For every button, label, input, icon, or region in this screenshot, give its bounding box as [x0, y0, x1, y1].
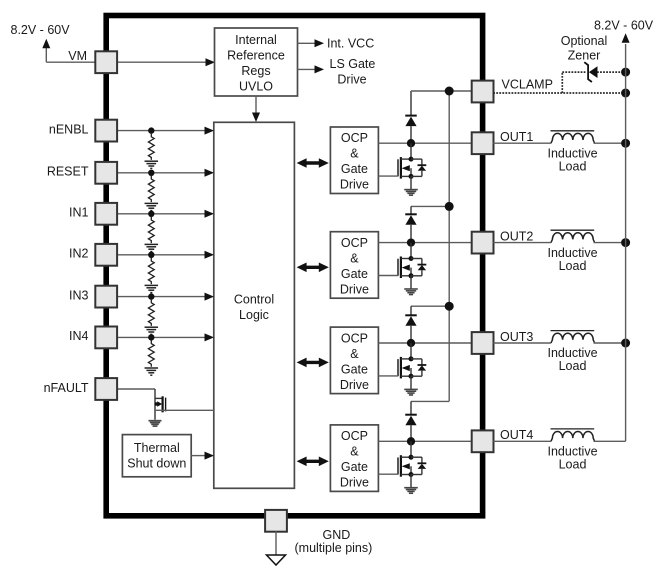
wire OCP 3 output to OUT3 pin: [378, 342, 472, 344]
label Inductive Load 2: [547, 246, 597, 273]
svg-text:OCP: OCP: [341, 131, 368, 145]
body diode of Q2: [411, 259, 426, 276]
svg-text:Drive: Drive: [340, 178, 369, 192]
wire OUT3 to load: [493, 342, 551, 344]
bidirectional arrow control logic to OCP 3: [297, 358, 329, 368]
wire OUT4 to load: [493, 440, 551, 442]
junction clamp bus 2: [445, 202, 454, 211]
svg-text:Reference: Reference: [227, 49, 285, 63]
label LS Gate Drive: [330, 57, 376, 87]
ground under nFAULT FET: [149, 421, 162, 426]
body diode of Q4: [411, 457, 426, 474]
ground symbol (open triangle): [267, 555, 286, 565]
ground under Q1: [404, 176, 418, 195]
svg-text:Regs: Regs: [241, 64, 270, 78]
pin IN4: [95, 327, 117, 349]
svg-text:VM: VM: [68, 49, 87, 63]
low-side MOSFET Q3: [398, 343, 414, 379]
junction dot on nENBL line: [148, 127, 154, 133]
svg-text:Zener: Zener: [568, 48, 601, 62]
svg-text:Inductive: Inductive: [547, 346, 597, 360]
svg-text:Int. VCC: Int. VCC: [327, 37, 374, 51]
low-side MOSFET Q1: [398, 143, 414, 179]
bidirectional arrow control logic to OCP 4: [297, 457, 329, 467]
label nENBL: [49, 122, 89, 136]
wire OCP 1 output to OUT1 pin: [378, 142, 472, 144]
label OUT4: [500, 428, 533, 442]
wire OCP 4 output to OUT4 pin: [378, 440, 472, 442]
pull-down resistor on IN4: [148, 340, 154, 366]
pull-down resistor on IN2: [148, 258, 154, 284]
junction dot on IN4 line: [148, 334, 154, 340]
inductive load L3: [551, 331, 595, 343]
svg-text:&: &: [350, 445, 359, 459]
IC boundary outline: [106, 16, 482, 516]
svg-text:Load: Load: [559, 159, 587, 173]
wire clamp branch 4: [411, 400, 449, 402]
arrow thermal shutdown to control logic: [191, 452, 214, 460]
pull-down resistor on IN1: [148, 217, 154, 243]
wire IN4 to control logic: [117, 333, 215, 341]
svg-text:GND: GND: [323, 528, 351, 542]
pull-down resistor on RESET: [148, 176, 154, 202]
svg-text:VCLAMP: VCLAMP: [502, 77, 553, 91]
wire gate of Q2 from OCP block: [378, 275, 398, 277]
wire load 2 to supply rail: [594, 242, 626, 244]
wire OCP 2 output to OUT2 pin: [378, 242, 472, 244]
dotted wire VCLAMP to supply rail: [493, 92, 625, 94]
wire gate of nFAULT FET from control logic: [155, 409, 214, 411]
wire gate of Q1 from OCP block: [378, 175, 398, 177]
label Inductive Load 1: [547, 146, 597, 173]
label OUT2: [500, 230, 533, 244]
supply rail vertical with up arrow: [622, 33, 630, 441]
svg-text:Gate: Gate: [341, 267, 368, 281]
svg-text:&: &: [350, 251, 359, 265]
node OUT2 junction: [407, 238, 415, 246]
dotted wire zener branch: [562, 72, 625, 93]
pull-down resistor on nENBL: [148, 134, 154, 160]
svg-text:OUT1: OUT1: [500, 130, 533, 144]
svg-text:nFAULT: nFAULT: [44, 381, 89, 395]
wire gate of Q3 from OCP block: [378, 375, 398, 377]
wire reference to control logic: [252, 96, 260, 122]
svg-text:OCP: OCP: [341, 331, 368, 345]
svg-text:Load: Load: [559, 259, 587, 273]
label GND (multiple pins): [295, 528, 373, 555]
ground under Q4: [404, 475, 418, 494]
svg-text:nENBL: nENBL: [49, 122, 89, 136]
inductive load L4: [551, 429, 595, 441]
junction clamp bus 3: [445, 302, 454, 311]
OCP gate drive block 3: [330, 327, 378, 394]
body diode of Q3: [411, 359, 426, 376]
junction dot on RESET line: [148, 170, 154, 176]
label nFAULT: [44, 381, 89, 395]
junction clamp bus top: [445, 87, 454, 96]
wire OUT2 to load: [493, 242, 551, 244]
svg-text:IN4: IN4: [69, 329, 89, 343]
wire clamp branch 2: [411, 205, 449, 207]
svg-text:UVLO: UVLO: [239, 80, 273, 94]
clamp diode D1: [405, 91, 417, 143]
svg-text:LS Gate: LS Gate: [330, 57, 376, 71]
svg-text:Drive: Drive: [340, 282, 369, 296]
pin IN2: [95, 244, 117, 266]
label RESET: [47, 165, 89, 179]
pin VM: [95, 51, 117, 73]
label VM: [68, 49, 87, 63]
svg-text:Thermal: Thermal: [134, 441, 180, 455]
clamp diode D2: [405, 206, 417, 242]
low-side MOSFET Q4: [398, 441, 414, 477]
wire nFAULT to open-drain FET: [117, 389, 156, 420]
inductive load L2: [551, 230, 595, 242]
wire IN3 to control logic: [117, 293, 215, 301]
arrow LS Gate Drive: [298, 65, 325, 73]
node OUT4 junction: [407, 437, 415, 445]
OCP gate drive block 2: [330, 232, 378, 299]
VM supply label 8.2V - 60V: [11, 23, 71, 37]
ground under IN4 resistor: [145, 368, 159, 375]
label Inductive Load 3: [547, 346, 597, 373]
label Optional Zener: [561, 34, 608, 63]
bidirectional arrow control logic to OCP 2: [297, 263, 329, 273]
OCP gate drive block 4: [330, 425, 378, 492]
wire load 4 to supply rail: [594, 440, 626, 442]
wire IN1 to control logic: [117, 210, 215, 218]
svg-text:Internal: Internal: [235, 33, 277, 47]
body diode of Q1: [411, 159, 426, 176]
ground under nENBL resistor: [145, 161, 159, 168]
svg-text:OUT3: OUT3: [500, 330, 533, 344]
svg-text:Gate: Gate: [341, 460, 368, 474]
wire clamp branch 3: [411, 305, 449, 307]
bidirectional arrow control logic to OCP 1: [297, 158, 329, 168]
label IN3: [69, 288, 89, 302]
wire VCLAMP pin to clamp bus: [411, 90, 472, 92]
optional zener diode: [584, 62, 597, 82]
clamp diode D3: [405, 306, 417, 343]
svg-text:&: &: [350, 347, 359, 361]
label OUT1: [500, 130, 533, 144]
clamp diode D4: [405, 401, 417, 441]
label IN4: [69, 329, 89, 343]
wire load 1 to supply rail: [594, 142, 626, 144]
pin GND: [265, 510, 287, 532]
svg-text:RESET: RESET: [47, 165, 89, 179]
internal reference regs UVLO block: [215, 28, 298, 96]
pin OUT4: [472, 430, 494, 452]
svg-text:Logic: Logic: [239, 308, 269, 322]
arrow Int. VCC: [298, 39, 325, 47]
pin OUT1: [472, 132, 494, 154]
svg-text:Load: Load: [559, 359, 587, 373]
svg-text:IN1: IN1: [69, 206, 89, 220]
pin IN3: [95, 286, 117, 308]
label supply 8.2V - 60V right: [594, 18, 654, 32]
pin nENBL: [95, 120, 117, 142]
svg-text:8.2V - 60V: 8.2V - 60V: [11, 23, 71, 37]
inductive load L1: [551, 131, 595, 143]
pin OUT2: [472, 232, 494, 254]
svg-text:(multiple pins): (multiple pins): [295, 541, 373, 555]
junction VCLAMP dotted to supply rail: [621, 89, 630, 98]
label IN1: [69, 206, 89, 220]
svg-text:IN2: IN2: [69, 247, 89, 261]
pin nFAULT: [95, 378, 117, 400]
svg-text:Drive: Drive: [337, 72, 366, 86]
svg-text:Gate: Gate: [341, 362, 368, 376]
svg-text:Gate: Gate: [341, 162, 368, 176]
label OUT3: [500, 330, 533, 344]
svg-text:&: &: [350, 147, 359, 161]
junction supply rail OUT2: [621, 238, 630, 247]
wire gate of Q4 from OCP block: [378, 473, 398, 475]
junction dot on IN1 line: [148, 211, 154, 217]
wire VCLAMP clamp bus vertical: [448, 91, 450, 401]
open-drain transistor on nFAULT: [155, 396, 166, 412]
thermal shutdown block: [122, 435, 191, 477]
svg-text:Shut down: Shut down: [127, 457, 186, 471]
wire nENBL to control logic: [117, 127, 215, 135]
low-side MOSFET Q2: [398, 243, 414, 279]
control logic block: [214, 122, 295, 488]
wire VM supply with up arrow: [42, 39, 96, 62]
node OUT3 junction: [407, 339, 415, 347]
svg-text:Inductive: Inductive: [547, 246, 597, 260]
node OUT1 junction: [407, 139, 415, 147]
svg-text:Drive: Drive: [340, 378, 369, 392]
wire load 3 to supply rail: [594, 342, 626, 344]
ground under Q3: [404, 376, 418, 395]
pull-down resistor on IN3: [148, 300, 154, 326]
junction dot on IN2 line: [148, 252, 154, 258]
OCP gate drive block 1: [330, 127, 378, 194]
svg-text:OCP: OCP: [341, 236, 368, 250]
ground under IN2 resistor: [145, 285, 159, 292]
wire VM pin to reference regs: [117, 58, 216, 66]
ground under Q2: [404, 276, 418, 295]
svg-text:OUT4: OUT4: [500, 428, 533, 442]
svg-text:Control: Control: [234, 292, 274, 306]
junction zener to supply rail: [621, 68, 630, 77]
svg-text:Inductive: Inductive: [547, 445, 597, 459]
wire GND pin to ground symbol: [275, 531, 277, 555]
svg-text:Drive: Drive: [340, 476, 369, 490]
junction supply rail OUT1: [621, 139, 630, 148]
junction supply rail OUT3: [621, 339, 630, 348]
svg-text:OUT2: OUT2: [500, 230, 533, 244]
ground under IN1 resistor: [145, 244, 159, 251]
wire OUT1 to load: [493, 142, 551, 144]
svg-text:Load: Load: [559, 458, 587, 472]
svg-text:Optional: Optional: [561, 34, 608, 48]
label Inductive Load 4: [547, 445, 597, 472]
svg-text:IN3: IN3: [69, 288, 89, 302]
junction dot on IN3 line: [148, 293, 154, 299]
pin RESET: [95, 162, 117, 184]
label VCLAMP: [502, 77, 553, 91]
pin VCLAMP: [472, 81, 494, 103]
pin OUT3: [472, 332, 494, 354]
label Int. VCC: [327, 37, 374, 51]
svg-text:OCP: OCP: [341, 429, 368, 443]
svg-text:8.2V - 60V: 8.2V - 60V: [594, 18, 654, 32]
wire RESET to control logic: [117, 169, 215, 177]
svg-text:Inductive: Inductive: [547, 146, 597, 160]
ground under RESET resistor: [145, 203, 159, 210]
ground under IN3 resistor: [145, 327, 159, 334]
wire IN2 to control logic: [117, 251, 215, 259]
label IN2: [69, 247, 89, 261]
pin IN1: [95, 203, 117, 225]
